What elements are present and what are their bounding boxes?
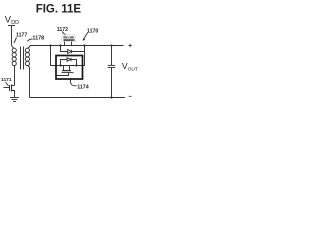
svg-text:1174: 1174	[77, 84, 89, 90]
svg-text:1172: 1172	[57, 27, 68, 33]
svg-text:OUT: OUT	[128, 66, 138, 72]
svg-text:1178: 1178	[32, 36, 44, 42]
svg-text:1177: 1177	[16, 32, 27, 38]
svg-text:DD: DD	[11, 20, 19, 26]
svg-text:1171: 1171	[1, 77, 12, 83]
svg-text:FIG. 11E: FIG. 11E	[36, 3, 82, 15]
svg-text:1170: 1170	[87, 28, 98, 34]
